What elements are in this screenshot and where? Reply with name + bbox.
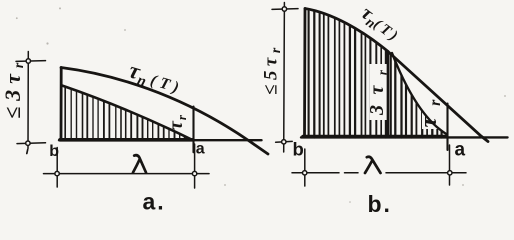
- bottom dimension tick (diagram a): [17, 142, 46, 145]
- svg-text:a: a: [455, 140, 466, 161]
- left extension line below point b (diagram b): [304, 149, 306, 186]
- left vertical edge of stress block (diagram a): [60, 68, 63, 140]
- bottom dimension node circle (diagram b): [282, 140, 286, 144]
- svg-text:a: a: [196, 140, 205, 157]
- vertical ordinate line at point a (diagram a): [192, 107, 194, 153]
- thick bottom edge of hatched area (diagram b): [303, 135, 446, 139]
- lambda dimension right node circle (diagram b): [448, 171, 452, 175]
- lambda dimension line (diagram a): [44, 173, 210, 175]
- vertical dimension line for height <=5tau_r (diagram b): [283, 3, 286, 153]
- top dimension tick (diagram a): [16, 60, 46, 63]
- svg-text:b: b: [49, 143, 59, 160]
- vertical ordinate line at point a (diagram b): [446, 104, 448, 151]
- svg-text:b.: b.: [368, 191, 392, 215]
- lambda dimension line with breaks (diagram b): [292, 172, 466, 174]
- inner reduced-stress curve (diagram a): [62, 86, 191, 140]
- top dimension node circle (diagram a): [26, 59, 30, 63]
- baseline axis b-a (diagram a): [59, 139, 262, 141]
- lambda dimension left node circle (diagram b): [303, 171, 307, 175]
- white gap for 3tau_r label inside hatch (diagram b): [370, 64, 388, 120]
- right extension line below point a (diagram b): [449, 145, 451, 185]
- left extension line below point b (diagram a): [56, 148, 58, 188]
- hatched area under curves (diagram b): [309, 2, 442, 138]
- lambda span label (diagram b): [365, 157, 381, 173]
- slanted dash below bottom node (diagram a): [26, 150, 29, 154]
- white gap for tau_r label inside hatch (diagram b): [422, 94, 441, 129]
- baseline axis b-a (diagram b): [301, 136, 508, 138]
- bottom dimension node circle (diagram a): [26, 141, 30, 145]
- thick bottom edge of hatched area (diagram a): [60, 138, 193, 142]
- outer stress curve tau_n(T) (diagram a): [61, 68, 268, 155]
- bottom dimension tick (diagram b): [276, 140, 293, 143]
- svg-text:b: b: [293, 139, 304, 160]
- outer stress curve tau_n(T) (diagram b): [305, 9, 488, 142]
- left vertical edge of stress block (diagram b): [303, 9, 306, 138]
- top dimension node circle (diagram b): [282, 7, 286, 11]
- svg-text:a.: a.: [143, 189, 166, 215]
- lambda dimension right node circle (diagram a): [192, 171, 196, 175]
- right extension line below point a (diagram a): [194, 144, 196, 188]
- vertical line at 3tau_r level (diagram b): [387, 52, 390, 137]
- top dimension tick (diagram b): [272, 8, 298, 11]
- lambda dimension left node circle (diagram a): [55, 171, 59, 175]
- lambda span label (diagram a): [133, 155, 146, 172]
- vertical dimension line for height <=3tau_r (diagram a): [27, 52, 29, 149]
- hatched area under inner curve (diagram a): [65, 20, 189, 140]
- inner reduced-stress curve (diagram b): [392, 53, 447, 135]
